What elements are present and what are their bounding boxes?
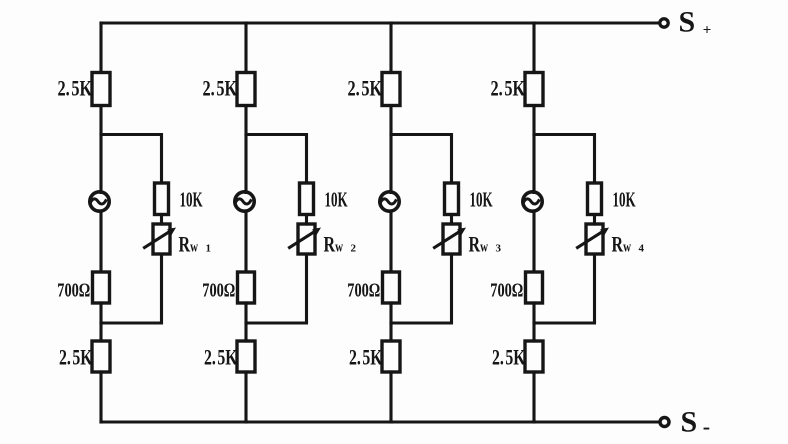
node branch 1 upper junction wire to parallel arm — [101, 135, 162, 184]
wire branch 4 top rail to R top — [532, 23, 535, 73]
svg-text:2: 2 — [351, 243, 357, 255]
svg-text:4: 4 — [639, 243, 645, 255]
wire branch 4 10K to Rw — [593, 215, 596, 225]
resistor 700 ohm branch 1 — [93, 272, 110, 303]
resistor 10K branch 4 — [588, 183, 602, 215]
resistor 2.5K lower branch 4 — [525, 341, 543, 372]
svg-text:700Ω: 700Ω — [57, 278, 90, 301]
wire branch 4 lower R to bottom rail — [532, 372, 535, 422]
node branch 3 upper junction wire to parallel arm — [391, 135, 452, 184]
resistor 2.5K lower branch 2 — [237, 341, 255, 372]
wire branch 4 Rw to lower junction — [534, 254, 595, 323]
wire branch 3 Rw to lower junction — [391, 254, 452, 323]
wire branch 2 top rail to R top — [244, 23, 247, 73]
svg-text:Rw: Rw — [469, 233, 489, 257]
resistor 700 ohm branch 3 — [383, 272, 400, 303]
svg-text:700Ω: 700Ω — [202, 278, 235, 301]
svg-text:2.5K: 2.5K — [203, 77, 238, 101]
wire branch 1 top rail to R top — [99, 23, 102, 73]
svg-text:2.5K: 2.5K — [349, 346, 383, 370]
svg-text:2.5K: 2.5K — [491, 77, 526, 101]
terminal S+ — [660, 19, 668, 27]
potentiometer Rw3 box — [443, 224, 460, 254]
wire branch 2 10K to Rw — [305, 215, 308, 225]
resistor 2.5K upper branch 3 — [382, 73, 400, 106]
svg-text:10K: 10K — [325, 187, 348, 211]
resistor 2.5K upper branch 1 — [92, 73, 110, 106]
potentiometer Rw1 wiper arrow — [145, 228, 177, 248]
potentiometer Rw2 wiper arrow — [290, 228, 322, 248]
svg-text:700Ω: 700Ω — [347, 278, 380, 301]
svg-text:1: 1 — [206, 243, 212, 255]
resistor 2.5K lower branch 3 — [382, 341, 400, 372]
wire branch 3 R bottom to source top — [389, 106, 392, 193]
source (AC) symbol branch 4 — [523, 192, 542, 211]
node branch 2 upper junction wire to parallel arm — [246, 135, 307, 184]
wire branch 1 source to 700 ohm — [99, 211, 102, 272]
wire branch 3 lower R to bottom rail — [389, 372, 392, 422]
potentiometer Rw1 box — [153, 224, 170, 254]
svg-text:2.5K: 2.5K — [59, 346, 93, 370]
wire branch 1 700 ohm to lower R — [99, 303, 102, 341]
svg-text:2.5K: 2.5K — [492, 346, 526, 370]
resistor 700 ohm branch 2 — [238, 272, 255, 303]
wire branch 2 Rw to lower junction — [246, 254, 307, 323]
wire branch 2 source to 700 ohm — [244, 211, 247, 272]
node branch 4 upper junction wire to parallel arm — [534, 135, 595, 184]
wire branch 3 10K to Rw — [450, 215, 453, 225]
wire branch 2 lower R to bottom rail — [244, 372, 247, 422]
potentiometer Rw2 box — [298, 224, 315, 254]
resistor 2.5K upper branch 4 — [525, 73, 543, 106]
wire branch 2 R bottom to source top — [244, 106, 247, 193]
source (AC) symbol branch 1 — [90, 192, 109, 211]
resistor 2.5K upper branch 2 — [237, 73, 255, 106]
wire branch 1 lower R to bottom rail — [99, 372, 102, 422]
source (AC) symbol branch 3 — [380, 192, 399, 211]
svg-text:700Ω: 700Ω — [490, 278, 523, 301]
svg-text:10K: 10K — [470, 187, 493, 211]
resistor 10K branch 2 — [300, 183, 314, 215]
resistor 700 ohm branch 4 — [526, 272, 543, 303]
resistor 2.5K lower branch 1 — [92, 341, 110, 372]
svg-text:10K: 10K — [180, 187, 203, 211]
svg-text:2.5K: 2.5K — [204, 346, 238, 370]
svg-text:3: 3 — [496, 243, 502, 255]
potentiometer Rw3 wiper arrow — [435, 228, 467, 248]
resistor 10K branch 1 — [155, 183, 169, 215]
svg-text:Rw: Rw — [179, 233, 199, 257]
wire branch 3 top rail to R top — [389, 23, 392, 73]
wire top rail S+ bus — [101, 21, 660, 24]
svg-text:Rw: Rw — [324, 233, 344, 257]
svg-text:10K: 10K — [613, 187, 636, 211]
svg-text:2.5K: 2.5K — [348, 77, 383, 101]
potentiometer Rw4 wiper arrow — [578, 228, 610, 248]
wire branch 2 700 ohm to lower R — [244, 303, 247, 341]
wire branch 1 10K to Rw — [160, 215, 163, 225]
wire branch 4 R bottom to source top — [532, 106, 535, 193]
wire bottom rail S- bus — [101, 420, 659, 423]
terminal S- — [660, 418, 669, 427]
svg-text:Rw: Rw — [612, 233, 632, 257]
resistor 10K branch 3 — [445, 183, 459, 215]
svg-text:2.5K: 2.5K — [58, 77, 93, 101]
wire branch 1 R bottom to source top — [99, 106, 102, 193]
potentiometer Rw4 box — [586, 224, 603, 254]
wire branch 4 700 ohm to lower R — [532, 303, 535, 341]
wire branch 3 700 ohm to lower R — [389, 303, 392, 341]
wire branch 1 Rw to lower junction — [101, 254, 162, 323]
source (AC) symbol branch 2 — [235, 192, 254, 211]
wire branch 3 source to 700 ohm — [389, 211, 392, 272]
wire branch 4 source to 700 ohm — [532, 211, 535, 272]
